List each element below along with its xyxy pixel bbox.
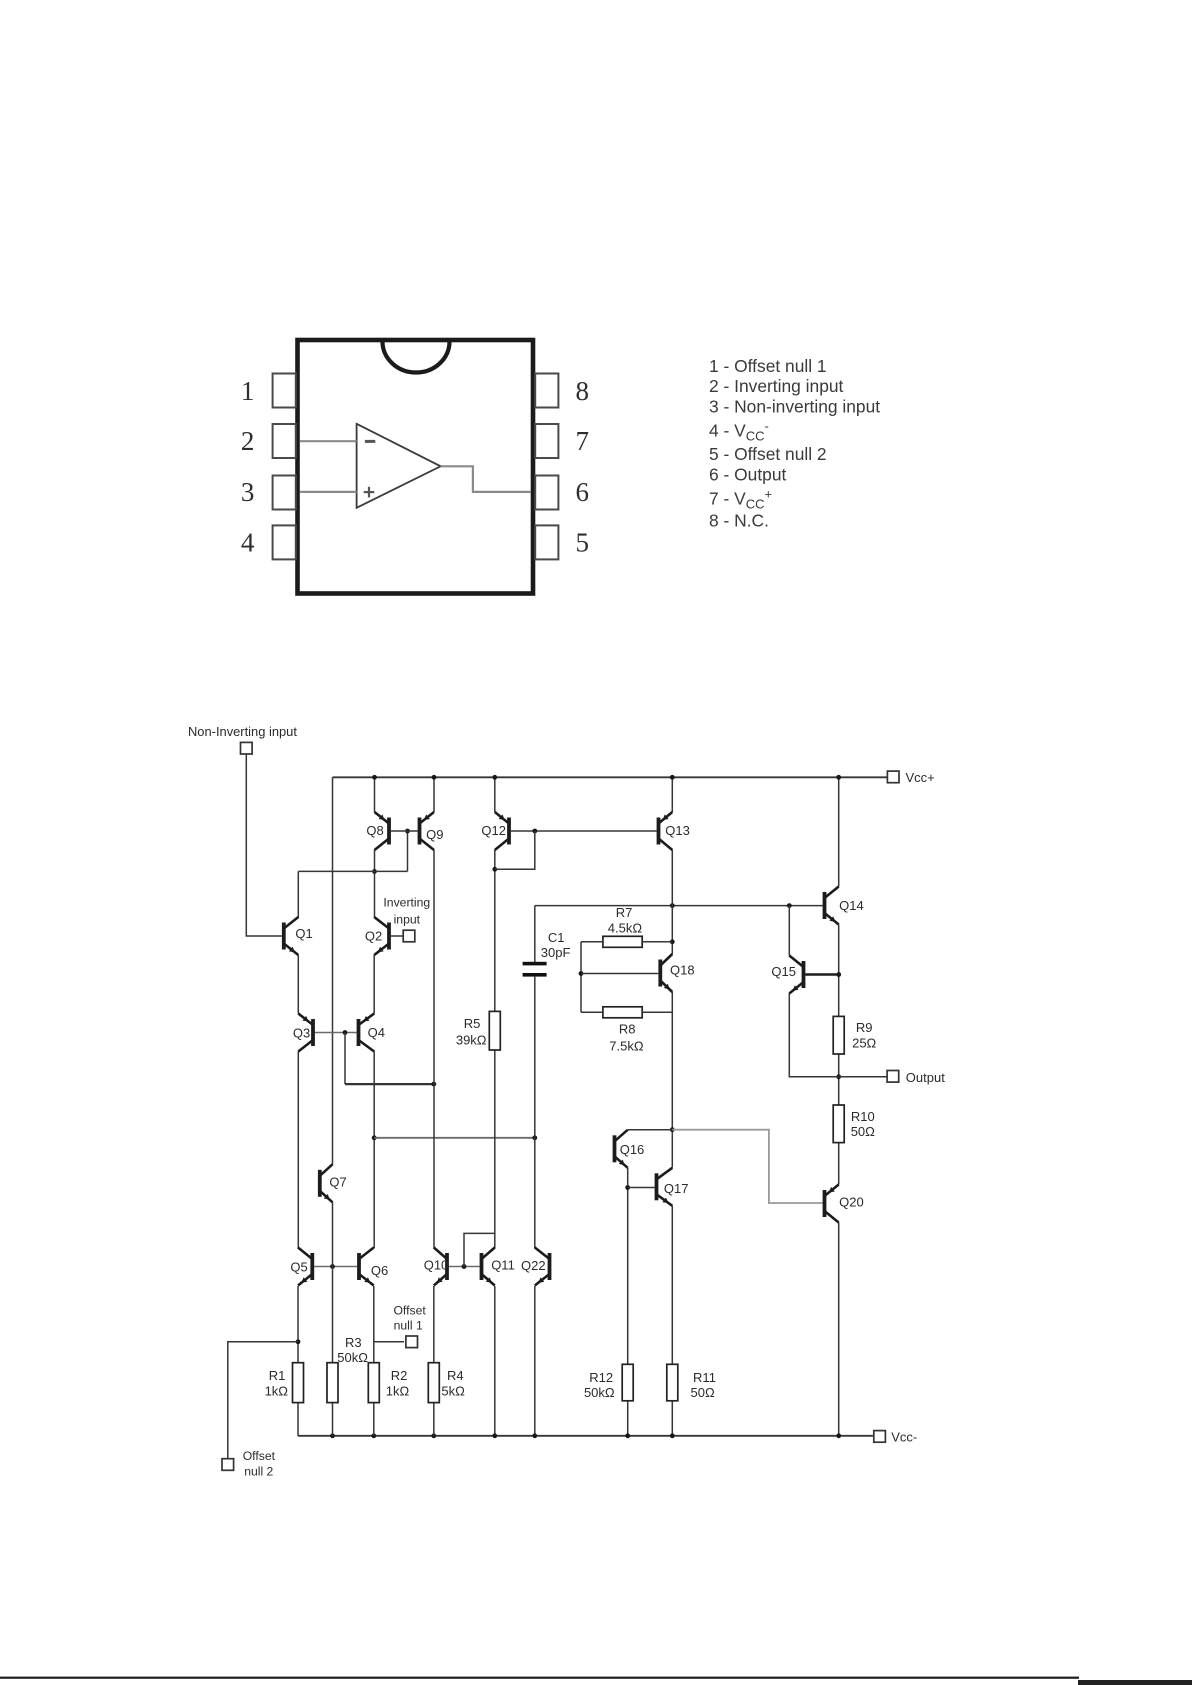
svg-text:Q1: Q1 <box>295 926 312 941</box>
svg-text:Offset: Offset <box>393 1303 426 1317</box>
svg-text:Q7: Q7 <box>329 1174 346 1189</box>
svg-text:Non-Inverting input: Non-Inverting input <box>188 724 297 739</box>
svg-text:null 1: null 1 <box>394 1318 423 1332</box>
capacitor C1 <box>523 962 547 966</box>
svg-text:Vcc+: Vcc+ <box>906 770 935 785</box>
svg-text:Q15: Q15 <box>771 964 796 979</box>
svg-text:Q22: Q22 <box>521 1258 546 1273</box>
svg-text:4: 4 <box>241 527 255 557</box>
wire Q12 base to collector tie <box>495 831 535 869</box>
wire to offset null 1 terminal <box>374 1341 404 1343</box>
wire bases drop <box>407 831 409 871</box>
svg-text:2: 2 <box>241 426 255 456</box>
transistor Q12 <box>495 812 509 850</box>
svg-text:1 - Offset null 1: 1 - Offset null 1 <box>709 356 827 376</box>
wire Vcc- rail <box>298 1435 873 1437</box>
junction <box>836 775 841 780</box>
svg-text:4.5kΩ: 4.5kΩ <box>608 921 643 936</box>
svg-text:39kΩ: 39kΩ <box>456 1032 487 1047</box>
svg-text:C1: C1 <box>548 930 565 945</box>
wire Q13 collector to Q18 collector <box>671 850 673 954</box>
wire R7 left stub <box>581 941 603 943</box>
wire Q1 collector riser <box>297 871 299 918</box>
wire Q9 collector down to Q10 collector <box>433 850 435 1248</box>
op-amp triangle <box>357 424 441 508</box>
wire R8 right stub <box>642 1011 672 1013</box>
wire Q18 emitter down to Q17 collector <box>671 992 673 1168</box>
junction <box>296 1339 301 1344</box>
svg-text:Q13: Q13 <box>665 823 690 838</box>
resistor R4 <box>428 1363 439 1403</box>
wire Vcc+ rail <box>333 776 888 778</box>
svg-text:Q17: Q17 <box>664 1181 689 1196</box>
transistor Q1 <box>284 917 299 955</box>
svg-text:null 2: null 2 <box>244 1464 273 1478</box>
svg-text:5: 5 <box>576 527 590 557</box>
transistor Q14 <box>825 887 839 925</box>
transistor Q18 <box>660 954 672 992</box>
wire node to Q20 base <box>672 1130 822 1203</box>
wire R7 to R8 left side <box>580 942 582 1013</box>
wire Q3 collector to Q5 collector <box>297 1052 299 1249</box>
wire Q8 base to Q9 base <box>391 830 418 832</box>
junction on Vcc- rail <box>371 1433 376 1438</box>
wire C1 bottom to Q22 collector <box>534 977 536 1248</box>
wire non-inv input to Q1 base <box>246 754 282 936</box>
wire R8 left stub <box>581 1011 603 1013</box>
wire Q15 emitter to output node <box>789 994 838 1077</box>
wire R2 to rail <box>373 1403 375 1436</box>
svg-text:R11: R11 <box>693 1370 716 1385</box>
svg-text:50Ω: 50Ω <box>691 1385 715 1400</box>
svg-text:R7: R7 <box>616 905 633 920</box>
transistor Q5 <box>298 1248 312 1286</box>
pin 7 lead <box>535 424 558 458</box>
resistor R10 <box>833 1105 844 1143</box>
wire Q5 emitter to R1 <box>297 1286 299 1363</box>
wire R10 to Q20 collector <box>838 1143 840 1185</box>
svg-text:1kΩ: 1kΩ <box>265 1384 289 1399</box>
svg-text:R9: R9 <box>856 1020 873 1035</box>
transistor Q15 <box>789 956 803 994</box>
svg-text:50Ω: 50Ω <box>851 1124 875 1139</box>
footer rule <box>0 1677 1079 1679</box>
junction <box>431 1082 436 1087</box>
junction <box>532 829 537 834</box>
wire R5 to Q11 collector <box>494 1050 496 1248</box>
svg-text:1kΩ: 1kΩ <box>386 1384 410 1399</box>
svg-text:7: 7 <box>576 426 590 456</box>
transistor Q11 <box>482 1248 495 1286</box>
svg-text:Q2: Q2 <box>365 928 382 943</box>
resistor R9 <box>833 1016 844 1054</box>
wire Q20 emitter to Vcc- rail <box>838 1223 840 1436</box>
svg-text:3 - Non-inverting input: 3 - Non-inverting input <box>709 397 880 417</box>
resistor R3 <box>327 1363 338 1403</box>
wire Q1 emitter to Q3 emitter <box>297 955 299 1014</box>
svg-text:R5: R5 <box>464 1016 481 1031</box>
svg-text:Q20: Q20 <box>839 1195 864 1210</box>
wire to Output terminal <box>839 1076 887 1078</box>
wire R7 right stub <box>642 941 672 943</box>
svg-text:50kΩ: 50kΩ <box>337 1350 368 1365</box>
transistor Q4 <box>359 1014 375 1052</box>
pin 3 lead <box>273 476 296 510</box>
svg-text:Q14: Q14 <box>839 898 864 913</box>
junction <box>372 869 377 874</box>
svg-text:7.5kΩ: 7.5kΩ <box>609 1039 644 1054</box>
svg-text:3: 3 <box>241 477 255 507</box>
wire Q2 emitter to Q4 emitter <box>373 955 375 1014</box>
wire Q16 collector to node <box>628 1129 673 1131</box>
junction <box>670 1127 675 1132</box>
junction <box>330 1264 335 1269</box>
wire Q6 emitter to R2 <box>373 1286 375 1363</box>
svg-text:input: input <box>394 913 421 927</box>
resistor R7 <box>603 936 642 947</box>
transistor Q6 <box>359 1248 374 1286</box>
terminal non-inverting input <box>241 742 253 754</box>
svg-text:Q18: Q18 <box>670 963 695 978</box>
transistor Q9 <box>420 812 435 850</box>
transistor Q7 <box>320 1164 333 1202</box>
junction <box>492 867 497 872</box>
svg-text:6 - Output: 6 - Output <box>709 465 787 485</box>
svg-text:Q3: Q3 <box>293 1025 310 1040</box>
wire Q22 emitter to Vcc- rail <box>534 1286 536 1436</box>
junction <box>462 1264 467 1269</box>
pin 4 lead <box>273 525 296 559</box>
junction on Vcc- rail <box>670 1433 675 1438</box>
wire Q17 emitter to R11 <box>671 1206 673 1365</box>
wire Q15 base tie <box>805 973 838 976</box>
wire Q12 emitter to rail <box>494 777 496 812</box>
transistor Q2 <box>374 917 389 955</box>
footer watermark block <box>1078 1680 1192 1685</box>
wire Q10 emitter to R4 <box>433 1286 435 1363</box>
resistor R1 <box>293 1363 304 1403</box>
svg-text:Output: Output <box>906 1070 945 1085</box>
wire Q13 collector node to Q14 base <box>535 905 823 907</box>
wire R3 to rail <box>332 1403 334 1436</box>
wire Q8 emitter to rail <box>374 777 376 812</box>
junction on Vcc- rail <box>836 1433 841 1438</box>
resistor R11 <box>667 1364 678 1401</box>
junction <box>625 1185 630 1190</box>
pin 2 lead <box>273 424 296 458</box>
transistor Q3 <box>298 1014 313 1052</box>
svg-text:Q8: Q8 <box>366 823 383 838</box>
junction on Vcc- rail <box>492 1433 497 1438</box>
terminal Vcc+ <box>887 771 899 783</box>
wire bases down <box>344 1033 346 1085</box>
terminal Vcc- <box>874 1431 886 1443</box>
resistor R5 <box>489 1011 500 1050</box>
wire bases to Q9 collector <box>345 1083 434 1085</box>
resistor R2 <box>368 1363 379 1403</box>
wire Q14 emitter to R9 <box>838 925 840 1017</box>
pin 8 lead <box>535 374 558 408</box>
junction <box>836 972 841 977</box>
wire Q4 collector to C1 bottom <box>374 1137 535 1139</box>
wire Q11 emitter to Vcc- rail <box>494 1286 496 1436</box>
pin 6 lead <box>535 476 558 510</box>
wire Q3 base to Q4 base <box>315 1032 357 1034</box>
svg-text:Inverting: Inverting <box>383 895 430 909</box>
svg-text:Vcc-: Vcc- <box>891 1429 917 1444</box>
transistor Q20 <box>825 1185 839 1223</box>
svg-text:Q16: Q16 <box>620 1142 645 1157</box>
wire Q16 emitter to R12 <box>627 1168 629 1365</box>
svg-text:Q11: Q11 <box>491 1257 515 1272</box>
junction <box>372 1135 377 1140</box>
transistor Q17 <box>657 1168 673 1206</box>
wire offset null 2 to R1 top <box>228 1342 298 1459</box>
wire op-amp output to pin6 <box>441 466 531 492</box>
pin 5 lead <box>535 525 558 559</box>
junction <box>343 1030 348 1035</box>
svg-text:Q12: Q12 <box>481 823 506 838</box>
svg-text:R3: R3 <box>345 1335 362 1350</box>
svg-text:8 - N.C.: 8 - N.C. <box>709 511 769 531</box>
junction <box>787 903 792 908</box>
svg-text:Q10: Q10 <box>424 1257 449 1272</box>
svg-text:Q5: Q5 <box>290 1260 307 1275</box>
wire Q2 base to inverting terminal <box>391 935 403 937</box>
svg-text:R4: R4 <box>447 1368 464 1383</box>
svg-text:5kΩ: 5kΩ <box>441 1384 465 1399</box>
plus sign <box>364 491 375 493</box>
svg-text:1: 1 <box>241 376 255 406</box>
wire Q5 base to Q6 base <box>314 1266 357 1268</box>
junction on Vcc- rail <box>330 1433 335 1438</box>
svg-text:50kΩ: 50kΩ <box>584 1385 615 1400</box>
svg-text:6: 6 <box>576 477 590 507</box>
wire R11 to Vcc- rail <box>671 1401 673 1436</box>
wire pin2 to inverting input <box>300 440 357 442</box>
wire to Q18 base <box>581 973 658 975</box>
svg-text:5 - Offset null 2: 5 - Offset null 2 <box>709 444 827 464</box>
resistor R8 <box>603 1007 642 1018</box>
terminal inverting input <box>403 930 415 942</box>
wire R9 to R10 <box>838 1054 840 1105</box>
junction <box>579 971 584 976</box>
svg-text:R10: R10 <box>851 1109 875 1124</box>
svg-text:Q9: Q9 <box>426 827 443 842</box>
junction on Vcc- rail <box>532 1433 537 1438</box>
transistor Q22 <box>535 1248 550 1286</box>
junction <box>670 903 675 908</box>
wire Q15 collector up <box>788 906 790 956</box>
wire Q12 collector to R5 <box>494 850 496 1011</box>
wire Q8 collector to Q2 collector <box>374 850 376 918</box>
svg-text:Q6: Q6 <box>371 1263 388 1278</box>
resistor R12 <box>622 1364 633 1401</box>
svg-text:30pF: 30pF <box>541 945 571 960</box>
wire Q11 base tie to collector <box>464 1233 495 1266</box>
junction <box>492 775 497 780</box>
wire R4 to rail <box>433 1403 435 1436</box>
package notch <box>383 342 450 373</box>
transistor Q16 <box>615 1130 628 1168</box>
wire to C1 top <box>534 906 536 962</box>
junction <box>670 775 675 780</box>
terminal Output <box>887 1071 899 1083</box>
wire Q9 emitter to rail <box>433 777 435 812</box>
junction <box>372 775 377 780</box>
minus sign <box>365 440 375 443</box>
wire R1 to rail <box>297 1403 299 1436</box>
wire rail-end down to Q7 collector <box>332 777 334 1164</box>
svg-text:R2: R2 <box>391 1368 408 1383</box>
transistor Q10 <box>434 1248 447 1286</box>
wire R12 to Vcc- rail <box>627 1401 629 1436</box>
wire Q13 emitter to rail <box>671 777 673 812</box>
svg-text:R1: R1 <box>269 1368 286 1383</box>
junction <box>432 775 437 780</box>
junction on Vcc- rail <box>625 1433 630 1438</box>
wire pin3 to non-inverting input <box>300 491 357 493</box>
wire Q10 base to Q11 base <box>449 1266 480 1268</box>
junction <box>670 939 675 944</box>
wire to Q17 base <box>628 1187 655 1189</box>
transistor Q13 <box>659 812 673 850</box>
junction on Vcc- rail <box>431 1433 436 1438</box>
wire Q7 emitter down to R3 <box>332 1202 334 1362</box>
wire Q12 base to Q13 base <box>511 830 657 832</box>
junction output node <box>836 1074 841 1079</box>
pin 1 lead <box>273 374 296 408</box>
svg-text:25Ω: 25Ω <box>852 1036 876 1051</box>
wire Q4 collector to Q6 collector <box>373 1052 375 1249</box>
terminal offset null 2 <box>222 1459 234 1471</box>
svg-text:Q4: Q4 <box>368 1025 385 1040</box>
svg-text:R12: R12 <box>589 1370 613 1385</box>
svg-text:R8: R8 <box>619 1022 636 1037</box>
terminal offset null 1 <box>406 1336 418 1348</box>
transistor Q8 <box>375 812 390 850</box>
junction Q8/Q9 bases <box>405 829 410 834</box>
wire Q14 collector to rail <box>838 777 840 886</box>
DIP-8 package outline <box>298 340 534 594</box>
wire Q1 collector to Q8/Q9 bases <box>298 870 407 872</box>
svg-text:8: 8 <box>576 376 590 406</box>
svg-text:2 - Inverting input: 2 - Inverting input <box>709 376 844 396</box>
junction <box>532 1135 537 1140</box>
svg-text:Offset: Offset <box>243 1449 276 1463</box>
